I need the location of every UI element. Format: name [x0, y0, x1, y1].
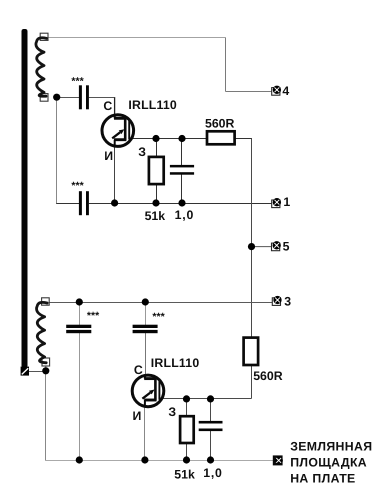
wire cap C1 to Q1 drain [89, 97, 115, 99]
terminal ground pad bottom right [274, 456, 283, 464]
wire 51k bottom stub [156, 184, 158, 204]
wire cap C4 bottom to rail [79, 333, 81, 461]
svg-text:3: 3 [284, 294, 291, 308]
wire 51k top stub [156, 139, 158, 158]
label 560R upper [205, 116, 235, 130]
transistor Q2 IRLL110 [132, 375, 164, 407]
junction cap 1,0-2 bottom [207, 456, 214, 463]
svg-text:***: *** [71, 180, 84, 192]
junction cap C5 top [142, 298, 149, 305]
label terminal 4 [282, 84, 289, 98]
svg-text:И: И [104, 149, 113, 163]
label terminal 5 [283, 239, 290, 253]
label *** cap C1 [71, 75, 84, 87]
wire cap 1,0-2 bottom stub [210, 431, 212, 461]
inductor L1 winding [36, 38, 47, 97]
svg-text:С: С [134, 363, 143, 377]
wire Q2 source lead [144, 406, 146, 461]
wire right vertical bus [251, 139, 253, 338]
svg-text:НА ПЛАТЕ: НА ПЛАТЕ [290, 471, 355, 485]
label terminal 1 [283, 195, 290, 209]
junction Q1 source rail [111, 199, 118, 206]
wire cap C4 top stub [79, 303, 81, 326]
svg-text:51k: 51k [145, 209, 166, 223]
wire top from L1 to corner [49, 37, 226, 39]
svg-text:IRLL110: IRLL110 [128, 98, 177, 112]
svg-text:З: З [168, 405, 176, 419]
inductor L2 bottom terminal square [42, 358, 50, 366]
label И (source) Q1 [104, 149, 113, 163]
junction cap C4 bottom [76, 456, 83, 463]
wire cap 1,0-2 top stub [210, 399, 212, 422]
junction 51k bottom [152, 199, 159, 206]
inductor L1 top terminal square [40, 33, 48, 40]
wire 560R to corner [234, 138, 252, 140]
capacitor C1 (***) series top [79, 85, 89, 109]
svg-text:ЗЕМЛЯННАЯ: ЗЕМЛЯННАЯ [290, 440, 372, 454]
resistor 51k upper [149, 157, 164, 184]
junction 51k2 top [183, 395, 190, 402]
terminal 5 pad [272, 241, 281, 251]
svg-text:И: И [133, 409, 142, 423]
svg-text:5: 5 [283, 239, 290, 253]
label 560R lower [253, 369, 283, 383]
wire cap C2 to terminal 1 [89, 203, 272, 205]
junction cap 1,0 bottom [178, 199, 185, 206]
capacitor C4 (***) lower left [66, 325, 91, 333]
junction Q2 source rail [141, 456, 148, 463]
svg-text:IRLL110: IRLL110 [151, 356, 200, 370]
wire Q1 gate rail [129, 138, 208, 140]
wire rod pad to coil junction [29, 371, 46, 373]
svg-text:560R: 560R [253, 369, 283, 383]
capacitor C3 1,0 (Q1 source) [170, 165, 194, 175]
svg-text:***: *** [71, 75, 84, 87]
wire vertical right top [225, 38, 227, 92]
junction coil2 bottom [42, 367, 49, 374]
wire Q1 drain lead [114, 98, 116, 117]
svg-text:4: 4 [282, 84, 289, 98]
capacitor C6 1,0 (Q2 source) [199, 421, 223, 431]
capacitor C2 (***) series bottom [79, 191, 89, 215]
wire cap C5 top stub [145, 303, 147, 326]
resistor 51k lower [180, 416, 194, 443]
label 51k upper [145, 209, 166, 223]
label З (gate) Q2 [168, 405, 176, 419]
inductor L2 top terminal square [42, 298, 50, 305]
svg-text:ПЛОЩАДКА: ПЛОЩАДКА [290, 456, 367, 470]
junction 51k top [152, 135, 159, 142]
inductor L1 bottom terminal square [40, 94, 48, 102]
svg-text:1,0: 1,0 [203, 466, 223, 480]
wire Q2 gate rail [159, 398, 251, 400]
svg-text:З: З [138, 145, 146, 159]
resistor 560R lower [244, 338, 259, 365]
label *** cap C2 [71, 180, 84, 192]
junction 51k2 bottom [183, 456, 190, 463]
wire cap 1,0 bottom stub [181, 174, 183, 203]
svg-text:51k: 51k [174, 467, 195, 481]
wire coil2 bottom stub [45, 363, 47, 370]
label *** cap C5 [152, 311, 165, 323]
svg-text:560R: 560R [205, 116, 235, 130]
wire to terminal 4 [226, 91, 273, 93]
wire to terminal 5 [252, 246, 273, 248]
junction node 5 [248, 243, 255, 250]
svg-text:1,0: 1,0 [175, 208, 195, 222]
label IRLL110 Q1 [128, 98, 177, 112]
wire left bottom vertical [45, 371, 47, 461]
wire cap 1,0 top stub [181, 139, 183, 166]
wire rail to cap C2 [56, 203, 79, 205]
label З (gate) Q1 [138, 145, 146, 159]
terminal 1 pad [272, 198, 281, 208]
terminal 4 pad [272, 86, 281, 96]
wire 560R2 bottom stub [251, 365, 253, 399]
label C (drain) Q1 [103, 99, 112, 113]
wire 51k2 bottom stub [186, 443, 188, 461]
wire bottom ground rail [46, 460, 275, 462]
junction cap 1,0 top [178, 135, 185, 142]
label 1,0 lower [203, 466, 223, 480]
label ground pad text [290, 440, 372, 486]
wire Q1 source lead [114, 146, 116, 204]
rod bottom pad [21, 367, 29, 376]
resistor 560R upper [207, 131, 235, 144]
label terminal 3 [284, 294, 291, 308]
svg-text:***: *** [152, 311, 165, 323]
wire left vertical tap down [56, 97, 58, 204]
svg-text:С: С [103, 99, 112, 113]
wire coil tap to cap C1 [57, 97, 80, 99]
svg-text:1: 1 [283, 195, 290, 209]
capacitor C5 (***) lower mid [133, 325, 158, 333]
wire 51k2 top stub [186, 399, 188, 417]
label C (drain) Q2 [134, 363, 143, 377]
label И (source) Q2 [133, 409, 142, 423]
label 1,0 upper [175, 208, 195, 222]
junction cap 1,0-2 top [207, 395, 214, 402]
wire cap C5 to Q2 drain [145, 333, 147, 377]
junction cap C4 top [76, 298, 83, 305]
label *** cap C4 [87, 310, 100, 322]
wire lower top rail to terminal 3 [49, 302, 272, 304]
svg-text:***: *** [87, 310, 100, 322]
label IRLL110 Q2 [151, 356, 200, 370]
junction coil1 tap [53, 94, 60, 101]
antenna rod [22, 29, 28, 368]
inductor L2 winding [37, 302, 48, 362]
terminal 3 pad [272, 296, 281, 306]
label 51k lower [174, 467, 195, 481]
transistor Q1 IRLL110 [102, 115, 134, 147]
